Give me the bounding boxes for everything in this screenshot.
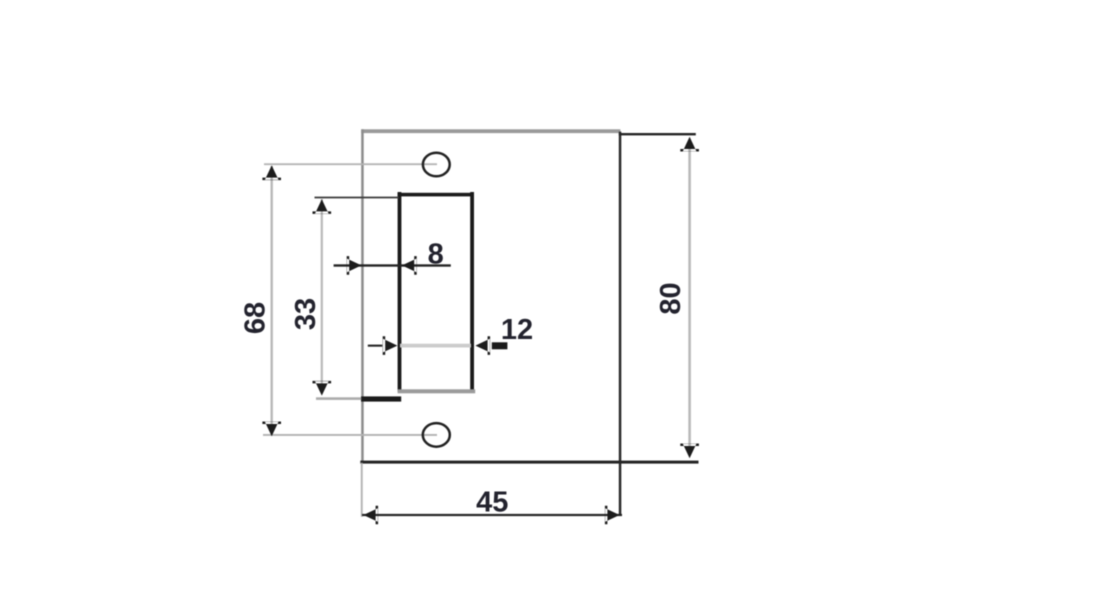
dim 33 arrow up bbox=[313, 199, 332, 214]
svg-text:45: 45 bbox=[476, 487, 508, 519]
dim 80 arrow down bbox=[680, 444, 699, 459]
hole top fill bbox=[423, 153, 450, 177]
slot left edge bbox=[398, 192, 402, 392]
svg-text:12: 12 bbox=[501, 314, 533, 346]
dim 33 arrow down bbox=[313, 381, 332, 396]
svg-text:33: 33 bbox=[290, 298, 322, 330]
dim 68 arrow down bbox=[262, 422, 281, 437]
dim 45 line bbox=[362, 514, 622, 516]
hole bottom outline bbox=[423, 423, 450, 447]
dim 8 line bbox=[334, 264, 451, 266]
dim 45 arrow left bbox=[363, 506, 378, 525]
dim 33 line bbox=[321, 199, 323, 392]
dim 45 arrow right bbox=[605, 506, 620, 525]
dim 12 right tail (thick) bbox=[492, 342, 508, 349]
svg-text:80: 80 bbox=[655, 282, 687, 314]
dim 12 arrow left (at slot right edge) bbox=[475, 336, 490, 355]
dim 12 arrow right (at slot left edge) bbox=[383, 336, 398, 355]
dim 8 arrow right (at plate left edge) bbox=[347, 256, 362, 275]
slot top edge bbox=[398, 193, 474, 197]
plate top edge bbox=[361, 129, 620, 133]
hole top outline bbox=[423, 153, 450, 177]
slot bottom edge bbox=[398, 389, 476, 393]
svg-text:8: 8 bbox=[428, 239, 444, 271]
lip bar below slot (black) bbox=[361, 396, 401, 401]
dim 68 top extension line bbox=[264, 163, 437, 165]
plate left edge bbox=[361, 129, 364, 463]
dim 68 bottom extension line bbox=[263, 434, 437, 436]
dim 33 bottom extension (gray part) bbox=[316, 397, 361, 400]
svg-text:68: 68 bbox=[239, 302, 271, 334]
dim 80 top extension bbox=[619, 133, 696, 135]
plate bottom edge + 80 bottom extension bbox=[360, 461, 698, 464]
slot right edge bbox=[470, 192, 474, 392]
plate right edge + 45 right extension bbox=[619, 132, 622, 516]
dim 80 arrow up bbox=[680, 137, 699, 152]
dim 33 top extension bbox=[315, 197, 399, 199]
dim 45 left extension bbox=[361, 463, 363, 517]
dim 68 line bbox=[271, 166, 273, 434]
dim 68 arrow up bbox=[262, 165, 281, 180]
dim 8 arrow left (at slot left edge) bbox=[402, 256, 417, 275]
dim 80 line bbox=[688, 139, 691, 455]
dim 12 left tail bbox=[368, 345, 383, 347]
dim 12 line inside slot (light) bbox=[400, 344, 471, 348]
hole bottom fill bbox=[423, 423, 450, 447]
